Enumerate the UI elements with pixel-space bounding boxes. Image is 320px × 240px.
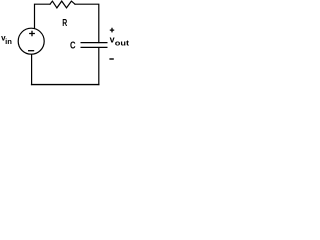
svg-text:in: in — [5, 37, 12, 46]
voltage source minus sign — [28, 50, 34, 52]
wire: bottom rail — [32, 84, 99, 86]
label v_in — [1, 34, 12, 46]
resistor R zigzag — [50, 1, 75, 8]
wire: top rail right segment and down to capacitor top plate — [75, 4, 99, 42]
voltage source plus sign — [29, 31, 35, 37]
voltage source V1 circle — [18, 28, 44, 54]
svg-text:C: C — [70, 41, 76, 52]
svg-text:R: R — [62, 18, 68, 29]
wire: bottom-left vertical stub up to source — [31, 55, 33, 85]
capacitor C top plate — [81, 42, 108, 44]
wire: top-left vertical stub from source to top rail — [35, 4, 51, 28]
wire: capacitor bottom plate down to bottom rail — [98, 48, 100, 85]
label v_out — [110, 34, 130, 47]
node minus sign (v_out -) — [109, 58, 113, 60]
node plus sign (v_out +) — [110, 28, 114, 33]
svg-text:out: out — [115, 39, 130, 48]
capacitor C bottom plate — [81, 46, 108, 48]
